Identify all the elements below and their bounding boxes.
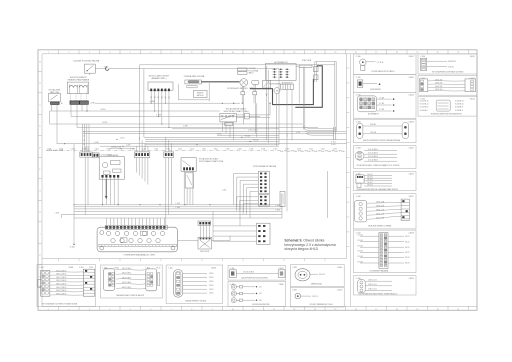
svg-text:2 B 8C 14 B: 2 B 8C 14 B	[376, 206, 384, 208]
ECU pin strip	[105, 226, 167, 230]
svg-text:18: 18	[396, 309, 398, 311]
svg-text:2 B 8C 14 B: 2 B 8C 14 B	[376, 210, 384, 212]
svg-text:6 B: 6 B	[259, 300, 261, 302]
svg-text:2 C 6B: 2 C 6B	[379, 109, 384, 111]
wire ecu to resistor	[178, 236, 230, 241]
bus y148.2 short	[110, 147, 135, 149]
svg-text:6 304: 6 304	[190, 149, 194, 151]
svg-text:L 308: L 308	[275, 210, 279, 212]
right column boundary	[350, 54, 352, 306]
left vertical cluster to strip G1	[82, 124, 89, 152]
svg-text:12 B 4C: 12 B 4C	[358, 235, 364, 237]
bus y135.3	[217, 134, 279, 136]
svg-text:C4001: C4001	[409, 56, 414, 58]
connector box C-344 reverse inhibit switch	[354, 146, 417, 169]
svg-text:C4007: C4007	[409, 196, 414, 198]
svg-text:13: 13	[293, 309, 295, 311]
wire fuel sender to connector	[95, 66, 279, 70]
connector box C-340 wheel speed sensor	[354, 54, 417, 75]
svg-text:2 B 8 C 14 B 3C: 2 B 8 C 14 B 3C	[56, 274, 66, 276]
svg-text:4: 4	[109, 309, 110, 311]
svg-text:30 B 6B 1C: 30 B 6B 1C	[448, 61, 457, 63]
control relay module label	[107, 154, 120, 157]
svg-text:C 340: C 340	[356, 56, 361, 58]
svg-text:St 205: St 205	[245, 134, 250, 137]
svg-text:2 304: 2 304	[178, 149, 182, 151]
svg-text:L 213 L 214: L 213 L 214	[248, 130, 257, 132]
svg-text:3 Ch 22 B 4 B: 3 Ch 22 B 4 B	[368, 153, 378, 155]
ruler ticks top	[48, 50, 469, 54]
svg-text:1 C 30 B: 1 C 30 B	[377, 62, 384, 64]
svg-text:1 B 10 C: 1 B 10 C	[367, 179, 374, 181]
connector box C-348 transaxle solenoid	[354, 276, 417, 296]
main schematic bottom ruler	[42, 259, 347, 262]
svg-text:L 310: L 310	[55, 213, 59, 215]
svg-text:15: 15	[334, 52, 336, 54]
strip G1 drops	[85, 157, 88, 214]
injector bank A	[258, 171, 269, 194]
fuel injectors label	[253, 165, 277, 168]
svg-text:5: 5	[130, 309, 131, 311]
distributor label	[227, 87, 253, 90]
svg-text:2 B 8 C 14 B 3C: 2 B 8 C 14 B 3C	[56, 284, 66, 286]
injector bank C	[257, 223, 271, 244]
svg-text:C 406: C 406	[230, 268, 235, 270]
ignition module label	[149, 75, 170, 80]
svg-text:2: 2	[68, 309, 69, 311]
svg-text:L: L	[39, 276, 40, 278]
risers from top components to mid buses	[255, 89, 292, 146]
svg-text:C 350: C 350	[420, 56, 425, 58]
fuel level sender B5	[84, 64, 95, 75]
bus y124	[50, 122, 304, 124]
svg-text:20: 20	[437, 52, 439, 54]
connector box C-345 steering gear	[354, 171, 417, 191]
shift-lock switch label	[199, 158, 224, 163]
svg-text:4 308: 4 308	[249, 149, 253, 151]
svg-text:C4080: C4080	[279, 284, 284, 286]
svg-text:St 206: St 206	[253, 139, 258, 142]
svg-text:L 208: L 208	[94, 142, 98, 144]
ruler ticks left	[38, 60, 42, 286]
svg-text:3 Ch 22 B 4 B: 3 Ch 22 B 4 B	[368, 149, 378, 151]
svg-text:17: 17	[375, 309, 377, 311]
svg-text:G 304: G 304	[70, 247, 75, 249]
svg-text:12 B 2 C: 12 B 2 C	[312, 296, 319, 298]
svg-text:L 304: L 304	[275, 205, 279, 207]
battery thick cable	[250, 79, 314, 105]
svg-text:19: 19	[416, 52, 418, 54]
ECU label	[124, 253, 156, 256]
bottom box B6 temperature sensor	[290, 287, 344, 307]
svg-text:W: W	[61, 103, 63, 105]
svg-text:2 B 8C 14 B: 2 B 8C 14 B	[376, 214, 384, 216]
svg-text:G 202 Bk 12: G 202 Bk 12	[455, 104, 464, 106]
svg-text:30 B 4 C: 30 B 4 C	[319, 274, 326, 276]
resistor pack R1	[198, 237, 212, 253]
return wire right of injectors	[327, 171, 329, 218]
svg-text:STACYJKA: STACYJKA	[302, 59, 312, 62]
svg-text:22 B 6 C 4 B: 22 B 6 C 4 B	[368, 280, 377, 282]
svg-text:4 B 2C 8 B 6C: 4 B 2C 8 B 6C	[122, 282, 131, 284]
aux pin connector	[198, 221, 211, 225]
svg-text:3 B 2C: 3 B 2C	[217, 134, 223, 136]
bus y128.8	[172, 128, 279, 130]
svg-text:C4010: C4010	[470, 56, 475, 58]
svg-text:L 302: L 302	[176, 203, 180, 205]
svg-text:10: 10	[232, 52, 234, 54]
svg-text:G 203 Bk 8: G 203 Bk 8	[455, 107, 463, 109]
starter label and motor	[269, 84, 281, 94]
svg-text:C4100: C4100	[337, 290, 342, 292]
svg-text:C 408: C 408	[292, 267, 297, 269]
strip codes left	[47, 150, 112, 156]
svg-text:22 B 6 C 4 B: 22 B 6 C 4 B	[368, 289, 377, 291]
svg-text:C 341: C 341	[356, 77, 361, 79]
svg-text:30 B 6B: 30 B 6B	[370, 124, 376, 126]
inhibitor switch S4	[220, 113, 236, 122]
svg-text:2 B 8 C 14 B 3C: 2 B 8 C 14 B 3C	[56, 287, 66, 289]
svg-text:C4060: C4060	[211, 267, 216, 269]
svg-text:C4008: C4008	[409, 232, 414, 234]
connector box D1 main harness plug	[418, 54, 477, 74]
switch drop links	[50, 111, 52, 124]
bottom box B4a small link	[228, 266, 286, 281]
svg-text:1 B 10 C: 1 B 10 C	[367, 184, 374, 186]
svg-text:CZUJNIK POZIOMU PALIWA: CZUJNIK POZIOMU PALIWA	[73, 59, 100, 62]
inhibitor connector right	[236, 103, 270, 119]
svg-text:2 B 8C 14 B: 2 B 8C 14 B	[376, 202, 384, 204]
svg-text:1 3: 1 3	[83, 140, 85, 142]
svg-text:CEWKA ZAPLONOWA: CEWKA ZAPLONOWA	[184, 75, 205, 78]
svg-text:ROZDZIELACZ ZAPLONU: ROZDZIELACZ ZAPLONU	[227, 87, 248, 90]
svg-text:B 224: B 224	[102, 122, 107, 124]
svg-text:G 101 Bk 16: G 101 Bk 16	[420, 100, 429, 102]
svg-text:G 201 Bk 10: G 201 Bk 10	[455, 100, 464, 102]
svg-text:16: 16	[355, 309, 357, 311]
svg-text:4 B 2C 8 B 6C: 4 B 2C 8 B 6C	[122, 268, 131, 270]
svg-text:5 306: 5 306	[226, 149, 230, 151]
svg-text:4 312: 4 312	[333, 149, 337, 151]
enclosing loop B	[144, 69, 279, 145]
svg-text:2 C 6B: 2 C 6B	[379, 97, 384, 99]
bottom box B5 cigarette lighter	[290, 265, 344, 287]
connector box C-343 hood solenoid	[354, 119, 417, 143]
svg-text:C 402: C 402	[79, 267, 84, 269]
solenoid pair K2	[67, 82, 88, 94]
svg-text:7: 7	[171, 52, 172, 54]
svg-text:1 304: 1 304	[154, 149, 158, 151]
svg-text:5 348: 5 348	[71, 149, 75, 151]
svg-text:12: 12	[273, 52, 275, 54]
dash-dot boundary right	[280, 151, 345, 153]
svg-text:C4009: C4009	[409, 278, 414, 280]
svg-text:15: 15	[334, 309, 336, 311]
right fan-out to terminals	[296, 126, 336, 146]
alternator label	[274, 61, 288, 64]
svg-text:8: 8	[191, 52, 192, 54]
svg-text:1 B 10 C: 1 B 10 C	[367, 177, 374, 179]
svg-text:20: 20	[437, 309, 439, 311]
ECU feed drops	[74, 218, 282, 226]
svg-text:14: 14	[314, 52, 316, 54]
svg-text:C 345: C 345	[356, 174, 361, 176]
distributor cap boxes	[238, 68, 248, 74]
svg-text:7: 7	[171, 309, 172, 311]
ignition riser pair to fuse box	[299, 67, 305, 130]
svg-text:4 B: 4 B	[259, 293, 261, 295]
strip G2 drops	[136, 158, 148, 185]
svg-text:REZYSTOR: REZYSTOR	[200, 251, 210, 253]
svg-text:2 B 8C 6 B: 2 B 8C 6 B	[435, 86, 442, 88]
svg-text:C 405: C 405	[168, 267, 173, 269]
svg-text:12 B 4C: 12 B 4C	[448, 66, 455, 68]
svg-text:5: 5	[130, 52, 131, 54]
inner ruler line left	[41, 54, 43, 306]
svg-text:G 102: G 102	[331, 144, 336, 146]
wire pickup down with connector	[253, 84, 257, 103]
schematic caption	[284, 239, 335, 251]
svg-text:L 216: L 216	[222, 189, 226, 191]
svg-text:WALU: WALU	[249, 72, 255, 75]
svg-text:12 B 4C: 12 B 4C	[358, 256, 364, 258]
svg-text:16: 16	[355, 52, 357, 54]
battery label	[282, 81, 294, 84]
svg-text:C4012: C4012	[470, 99, 475, 101]
bus group y137-146	[57, 134, 347, 146]
svg-text:8 346: 8 346	[107, 149, 111, 151]
svg-text:2 B 8C 6 B: 2 B 8C 6 B	[435, 89, 442, 91]
wire drops from switch and fuses	[52, 103, 88, 144]
risers from buses down to injectors	[213, 133, 287, 241]
distributor	[240, 79, 248, 87]
light switch label	[49, 89, 61, 94]
connector box C-346 reversing lamp switch	[354, 194, 417, 229]
svg-text:10: 10	[232, 309, 234, 311]
left riser to ground	[62, 144, 75, 249]
svg-text:19: 19	[416, 309, 418, 311]
svg-text:1 B 10 C: 1 B 10 C	[367, 174, 374, 176]
svg-text:1 3: 1 3	[83, 132, 85, 134]
connector box D3 ground points table	[418, 97, 477, 117]
solenoid pair label	[68, 76, 90, 82]
svg-text:L 306: L 306	[176, 207, 180, 209]
svg-text:WTRYSKIWACZE PALIWA: WTRYSKIWACZE PALIWA	[253, 165, 277, 168]
svg-text:PL20: PL20	[89, 267, 93, 269]
svg-text:12 B 4C: 12 B 4C	[358, 240, 364, 242]
svg-text:1: 1	[48, 52, 49, 54]
bus pair y131.5 y133.4	[83, 130, 347, 134]
svg-text:3 Ch 22 B 4 B: 3 Ch 22 B 4 B	[368, 160, 378, 162]
ignition switch strip	[296, 59, 312, 67]
svg-text:4 B: 4 B	[259, 286, 261, 288]
bottom box B2 engine-gearbox connector	[101, 265, 163, 298]
svg-text:17: 17	[375, 52, 377, 54]
svg-text:G 102 Bk 14: G 102 Bk 14	[420, 104, 429, 106]
svg-text:4 B 2C 8 B 6C: 4 B 2C 8 B 6C	[122, 273, 131, 275]
ECU body	[97, 227, 178, 252]
svg-text:2 B 8 C 14 B 3C: 2 B 8 C 14 B 3C	[56, 280, 66, 282]
svg-text:4 B 2C 8 B 6C: 4 B 2C 8 B 6C	[122, 277, 131, 279]
injector bank B	[258, 195, 269, 206]
svg-text:S 208: S 208	[150, 101, 155, 103]
svg-text:C 344: C 344	[356, 148, 361, 150]
svg-text:3: 3	[89, 52, 90, 54]
svg-text:12 B 4C: 12 B 4C	[358, 251, 364, 253]
bus L298 y116.5	[71, 115, 260, 117]
injector wires B	[237, 197, 259, 215]
bulkhead connector strip G3	[164, 152, 174, 158]
svg-text:C 347: C 347	[356, 232, 361, 234]
svg-text:SKRZYNI AUTOMATYCZNEJ: SKRZYNI AUTOMATYCZNEJ	[223, 110, 248, 113]
ignition coil label	[184, 75, 205, 78]
svg-text:3 Ch 22 B 4 B: 3 Ch 22 B 4 B	[368, 156, 378, 158]
injector wires A	[222, 174, 258, 219]
wire distributor down with connector	[241, 86, 245, 124]
svg-text:S 210: S 210	[101, 109, 106, 111]
svg-text:ROZRUSZNIK: ROZRUSZNIK	[269, 84, 281, 86]
connector box C-341 starter	[354, 75, 417, 93]
inhibitor drops	[222, 122, 233, 140]
mid bus group y204-218	[55, 203, 283, 215]
spark plug area outline	[178, 83, 209, 102]
svg-text:11: 11	[252, 52, 254, 54]
svg-text:8: 8	[191, 309, 192, 311]
svg-text:2 312: 2 312	[321, 149, 325, 151]
dashed links solenoid to fuse bars	[71, 93, 87, 100]
svg-text:J: J	[40, 233, 41, 235]
shift-lock switch	[181, 158, 196, 172]
svg-text:C4004: C4004	[409, 121, 414, 123]
battery box	[281, 84, 294, 89]
enclosing loop A	[140, 65, 335, 140]
bottom box B3 round connector	[166, 265, 222, 304]
light switch W	[49, 93, 63, 105]
aux connector risers	[201, 225, 210, 237]
svg-text:2 B 8 C 14 B 3C: 2 B 8 C 14 B 3C	[56, 290, 66, 292]
arrow lead down	[105, 179, 108, 199]
main schematic right divider ruler	[347, 54, 350, 259]
column connector pair on riser	[314, 62, 319, 83]
svg-text:6 308: 6 308	[261, 149, 265, 151]
pickup sensor box	[252, 80, 259, 84]
connector box C-342 alternator	[354, 92, 417, 118]
svg-text:- 2 348 - 4 348 - 6 348: - 2 348 - 4 348 - 6 348	[47, 150, 64, 152]
svg-text:2 B 8 C 14 B 3C: 2 B 8 C 14 B 3C	[56, 277, 66, 279]
svg-text:9: 9	[212, 52, 213, 54]
svg-text:L 298: L 298	[90, 103, 95, 105]
svg-text:C4006: C4006	[409, 174, 414, 176]
alternator G1 with diode grid	[265, 64, 296, 81]
svg-text:2 B 8C 6 B: 2 B 8C 6 B	[435, 79, 442, 81]
svg-text:5 310: 5 310	[297, 149, 301, 151]
connector box D2 harness pair	[418, 76, 477, 96]
bus y111	[52, 109, 220, 111]
svg-text:3 306: 3 306	[214, 149, 218, 151]
HT lead coil to distributor	[201, 81, 239, 83]
svg-text:21: 21	[457, 309, 459, 311]
svg-text:C4003: C4003	[409, 95, 414, 97]
shift-lock relay	[185, 173, 193, 188]
svg-text:1 306: 1 306	[202, 149, 206, 151]
svg-text:G 204 Bk 6: G 204 Bk 6	[455, 110, 463, 112]
svg-text:2 B 10C 30 B 6C: 2 B 10C 30 B 6C	[243, 272, 255, 274]
svg-text:12: 12	[273, 309, 275, 311]
svg-text:7 304: 7 304	[166, 149, 170, 151]
svg-text:12 B 4C: 12 B 4C	[358, 261, 364, 263]
svg-text:3: 3	[89, 309, 90, 311]
ignition module wire drops	[151, 91, 170, 128]
svg-text:6: 6	[150, 309, 151, 311]
svg-text:PL21: PL21	[157, 267, 161, 269]
fuse bar pair L298	[70, 101, 94, 105]
svg-text:21: 21	[457, 52, 459, 54]
svg-text:18: 18	[396, 52, 398, 54]
svg-text:L 210: L 210	[120, 138, 124, 140]
svg-text:12 B 6 B: 12 B 6 B	[370, 132, 376, 134]
svg-text:4 B 2C 8 B 6C: 4 B 2C 8 B 6C	[122, 287, 131, 289]
svg-text:2 308: 2 308	[237, 149, 241, 151]
svg-text:1 346: 1 346	[118, 149, 122, 151]
svg-text:13: 13	[293, 52, 295, 54]
starter thick cable	[295, 66, 322, 108]
bulkhead connector strip G2	[134, 152, 150, 158]
svg-text:1: 1	[48, 309, 49, 311]
bus L296 y127.4	[77, 126, 318, 128]
svg-text:6: 6	[150, 52, 151, 54]
svg-text:SWIATEL HAMOWANIA: SWIATEL HAMOWANIA	[68, 78, 90, 81]
svg-text:C4002: C4002	[409, 77, 414, 79]
svg-text:C4090: C4090	[337, 267, 342, 269]
svg-text:C4070: C4070	[279, 268, 284, 270]
fuel level sender label	[73, 59, 100, 62]
wires distributor to right with arrows	[266, 66, 268, 97]
svg-text:10 348 12 302: 10 348 12 302	[111, 147, 121, 149]
connector box C-347 harness junction strip	[354, 230, 417, 273]
inhibitor switch label	[223, 108, 248, 113]
bulkhead connector strip G1	[80, 152, 92, 157]
svg-text:12 B 4C: 12 B 4C	[358, 246, 364, 248]
strip G3 drops	[166, 158, 172, 226]
svg-text:2 B 8C 6 B: 2 B 8C 6 B	[435, 83, 442, 85]
svg-text:10246: 10246	[114, 267, 119, 269]
svg-text:1 3: 1 3	[83, 144, 85, 146]
ignition module	[148, 82, 173, 91]
svg-text:SKRZYNIA AUTOMATYCZNA: SKRZYNIA AUTOMATYCZNA	[199, 160, 224, 163]
wire code row (dash-dot boundary)	[46, 149, 344, 151]
inner ruler line bottom	[42, 305, 477, 307]
svg-text:2 302: 2 302	[95, 149, 99, 151]
svg-text:C4005: C4005	[409, 148, 414, 150]
svg-text:10248: 10248	[68, 267, 73, 269]
injector wires C	[213, 226, 257, 241]
ignition coil	[185, 80, 201, 88]
svg-text:C 401: C 401	[39, 267, 44, 269]
svg-text:G 103 Bk 10: G 103 Bk 10	[420, 107, 429, 109]
svg-text:C 409: C 409	[292, 290, 297, 292]
svg-text:1 B 10 C: 1 B 10 C	[367, 182, 374, 184]
bottom box B4b bulb sockets	[228, 281, 286, 306]
svg-text:1 3: 1 3	[83, 136, 85, 138]
svg-text:M: M	[276, 91, 278, 93]
drawing frame	[38, 50, 477, 311]
svg-text:11: 11	[252, 309, 254, 311]
svg-text:4: 4	[109, 52, 110, 54]
inner ruler line top	[42, 53, 477, 55]
svg-text:2 B 8 C 14 B 3C: 2 B 8 C 14 B 3C	[56, 293, 66, 295]
svg-text:5 302: 5 302	[142, 149, 146, 151]
lower-left connector half	[280, 191, 285, 206]
